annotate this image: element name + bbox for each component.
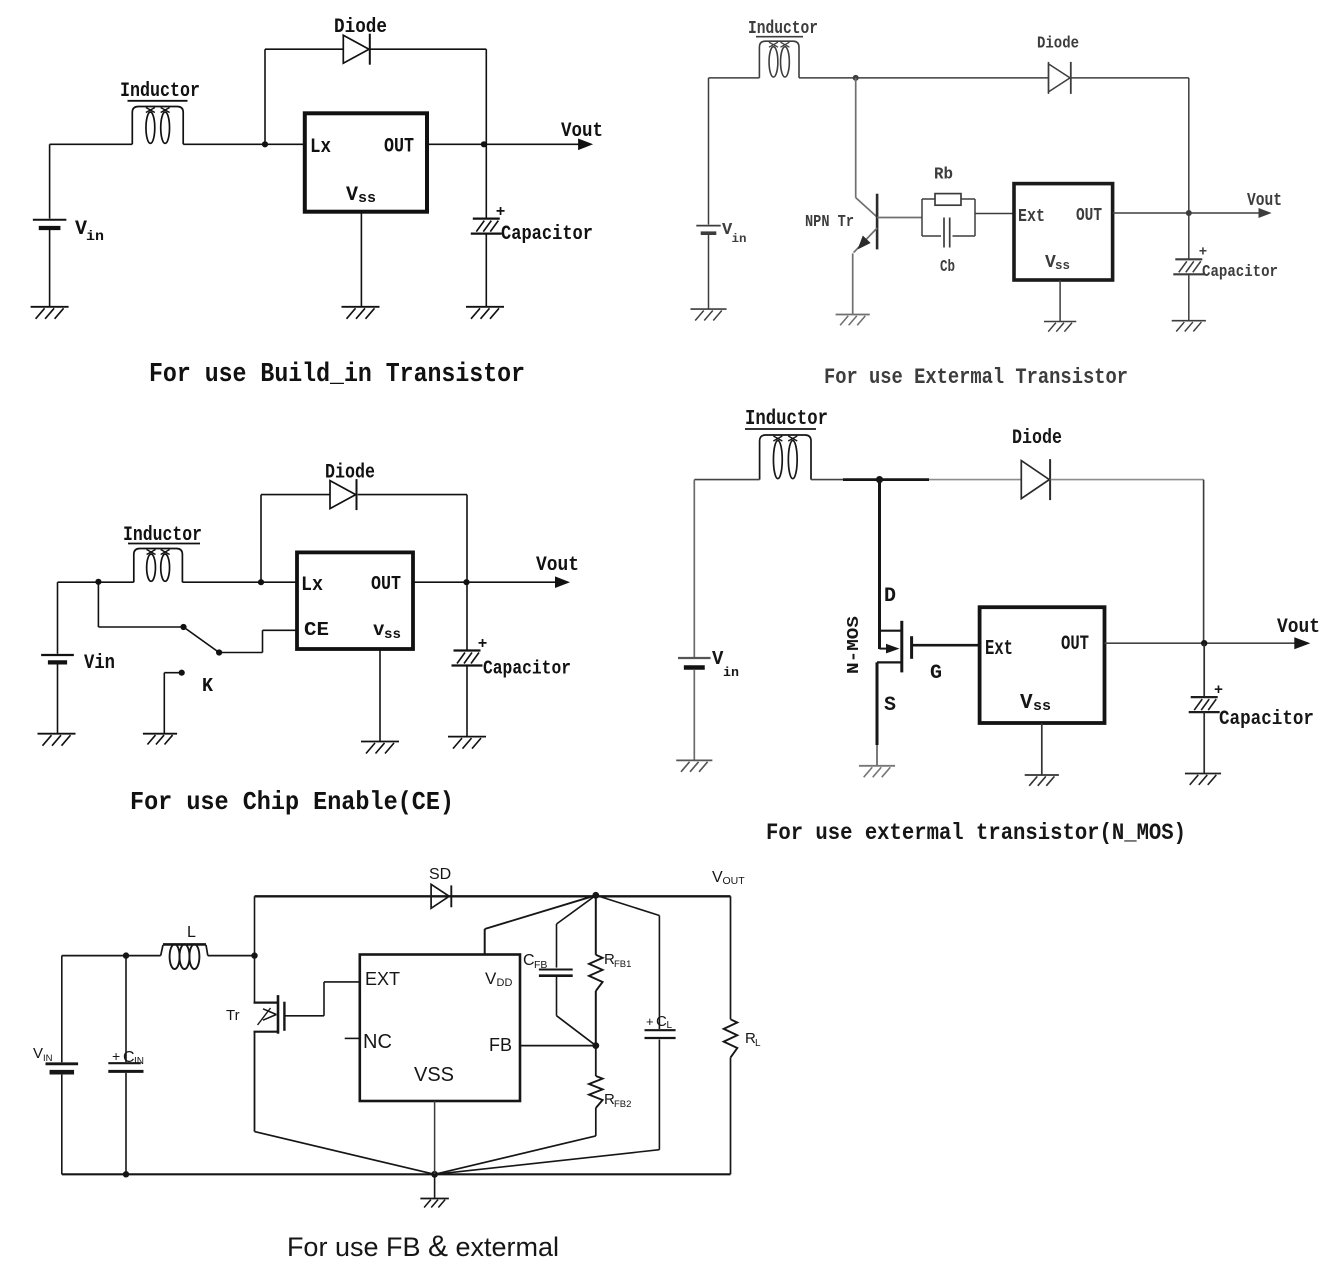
- node output junction (circuit 1): [481, 141, 487, 147]
- wire network to Ext pin: [975, 213, 1014, 215]
- pin stub NC: [345, 1037, 360, 1039]
- svg-text:OUT: OUT: [1076, 206, 1102, 226]
- wire gate to Ext (circuit 4): [912, 644, 980, 647]
- drain stub (Tr): [254, 1001, 279, 1003]
- wire RFB2 to ground node: [435, 1108, 596, 1174]
- resistor Rb: [922, 194, 975, 206]
- wire inductor to Lx (circuit 3): [182, 581, 297, 583]
- resistor RFB2: [589, 1076, 603, 1108]
- diode D3: [330, 479, 357, 510]
- wire diode to output corner (circuit 2): [1071, 78, 1189, 213]
- wire input top (circuit 2): [709, 77, 760, 79]
- svg-text:G: G: [930, 662, 942, 685]
- label Vout (circuit 3): [536, 554, 579, 577]
- node drain junction (circuit 4): [876, 476, 883, 483]
- IC U5 (FB & external): [360, 955, 520, 1102]
- label SD: [429, 866, 451, 883]
- pin label OUT (U4): [1061, 633, 1089, 656]
- label D: [884, 585, 896, 608]
- svg-text:V: V: [485, 969, 497, 988]
- inductor L1: [132, 107, 183, 145]
- svg-text:L: L: [755, 1038, 761, 1049]
- wire node to capacitor (circuit 3): [466, 582, 468, 650]
- ground Vin (circuit 2): [690, 309, 726, 320]
- label L (inductor): [187, 924, 196, 941]
- wire emitter to ground (NPN): [852, 253, 854, 314]
- battery VIN (circuit 5): [46, 956, 79, 1175]
- label Vin (circuit 2): [722, 221, 747, 246]
- transistor Q2 N-MOS channel bar: [900, 621, 903, 673]
- svg-text:ss: ss: [1033, 698, 1051, 715]
- label Capacitor (circuit 1): [501, 223, 593, 246]
- svg-text:Lx: Lx: [301, 574, 323, 597]
- plus sign (capacitor, circuit 2): [1199, 245, 1207, 261]
- transistor Q1 NPN base bar: [876, 194, 879, 250]
- node input junction (circuit 3): [95, 579, 101, 585]
- svg-text:Inductor: Inductor: [745, 408, 828, 431]
- node collector junction (circuit 2): [853, 75, 859, 81]
- IC U3 (chip enable): [297, 552, 413, 649]
- diode D2: [1049, 62, 1071, 94]
- pin label Ext (U2): [1018, 207, 1045, 227]
- capacitor C2 (output): [1173, 259, 1204, 274]
- switch K right contact: [216, 649, 222, 655]
- svg-text:EXT: EXT: [365, 969, 400, 989]
- diode SD: [431, 884, 451, 908]
- svg-text:Capacitor: Capacitor: [1202, 263, 1278, 282]
- svg-text:For use FB & extermal: For use FB & extermal: [287, 1230, 559, 1263]
- svg-text:FB2: FB2: [614, 1099, 631, 1110]
- wire capacitor to ground (circuit 1): [485, 234, 487, 307]
- svg-text:For use extermal transistor(N_: For use extermal transistor(N_MOS): [766, 820, 1186, 846]
- pin label FB (U5): [489, 1035, 512, 1055]
- wire FB node to RFB2: [595, 1046, 597, 1076]
- svg-text:C: C: [656, 1013, 667, 1030]
- wire capacitor to ground (circuit 4): [1203, 712, 1205, 773]
- label Vout (circuit 4): [1277, 616, 1320, 639]
- battery Vin (circuit 2): [696, 78, 720, 309]
- svg-text:ss: ss: [358, 190, 376, 207]
- wire base (NPN): [877, 217, 922, 219]
- contact K to ground: [164, 670, 184, 734]
- pin label Ext (U4): [985, 638, 1013, 661]
- pin label OUT (U1): [384, 136, 414, 159]
- wire left corner down (circuit 5): [254, 896, 256, 955]
- svg-text:Cb: Cb: [940, 258, 955, 277]
- ground Vin (circuit 1): [31, 307, 69, 319]
- inductor L5: [161, 944, 208, 969]
- svg-text:V: V: [33, 1045, 43, 1062]
- label Inductor (circuit 4): [745, 408, 828, 431]
- svg-text:V: V: [1020, 692, 1033, 715]
- pin label VDD (U5): [485, 969, 512, 989]
- node CIN bottom (circuit 5): [123, 1171, 129, 1177]
- transistor Tr channel bar: [277, 995, 280, 1034]
- wire ground stub (circuit 5): [434, 1174, 436, 1198]
- wire source diagonal to ground node: [255, 1132, 435, 1175]
- wire diode to corner (circuit 4): [1051, 480, 1204, 644]
- wire node to CL: [596, 895, 660, 1029]
- svg-text:Vout: Vout: [1277, 616, 1320, 639]
- pin label Vss (U3): [373, 619, 401, 643]
- svg-text:N-MOS: N-MOS: [845, 616, 864, 674]
- svg-text:Vout: Vout: [536, 554, 579, 577]
- svg-text:FB: FB: [489, 1035, 512, 1055]
- wire inductor to diode (circuit 2): [799, 77, 1049, 79]
- svg-text:Capacitor: Capacitor: [501, 223, 593, 246]
- IC U4 (N-MOS driver): [980, 607, 1105, 723]
- pin label Vss (U1): [346, 184, 376, 207]
- ground Vin (circuit 3): [38, 734, 76, 746]
- label RL: [745, 1030, 761, 1049]
- ground capacitor (circuit 4): [1185, 774, 1221, 785]
- title: For use Build_in Transistor: [149, 360, 525, 390]
- plus sign (capacitor, circuit 1): [496, 203, 506, 221]
- svg-text:V: V: [712, 869, 723, 886]
- svg-text:Capacitor: Capacitor: [1219, 708, 1314, 731]
- wire node to capacitor (circuit 1): [485, 144, 487, 218]
- svg-text:IN: IN: [43, 1053, 53, 1064]
- wire Vout corner to RL: [730, 896, 732, 1019]
- capacitor CIN: [108, 1063, 143, 1071]
- pin label OUT (U3): [371, 573, 401, 595]
- svg-text:VSS: VSS: [414, 1064, 454, 1086]
- svg-text:For use Chip Enable(CE): For use Chip Enable(CE): [130, 787, 454, 817]
- svg-text:L: L: [187, 924, 196, 941]
- wire RFB1 to FB node: [595, 991, 597, 1046]
- wire Vss to ground (circuit 1): [360, 212, 362, 307]
- svg-text:OUT: OUT: [384, 136, 414, 159]
- battery Vin (circuit 1): [33, 144, 67, 306]
- node output junction (circuit 2): [1186, 210, 1192, 216]
- svg-text:in: in: [732, 232, 747, 246]
- arrow Vout (circuit 1): [578, 139, 593, 151]
- pin label Lx (U1): [310, 136, 331, 159]
- wire switch to CE pin: [219, 630, 297, 652]
- svg-text:CE: CE: [304, 619, 329, 641]
- wire node to diode anode: [265, 49, 343, 143]
- svg-text:Inductor: Inductor: [120, 80, 200, 103]
- node output junction (circuit 4): [1201, 640, 1207, 646]
- pin label NC (U5): [363, 1031, 392, 1053]
- wire node thick segment (circuit 4): [843, 478, 929, 481]
- svg-text:+: +: [646, 1014, 654, 1029]
- wire diode to output corner (circuit 3): [358, 495, 467, 583]
- battery Vin (circuit 3): [41, 582, 74, 734]
- pin label CE (U3): [304, 619, 329, 641]
- title: For use Chip Enable(CE): [130, 787, 454, 817]
- label NPN Tr: [805, 213, 854, 232]
- transistor Q2 gate bar: [910, 636, 913, 659]
- wire bottom rail (circuit 5): [62, 1173, 731, 1175]
- label Rb: [934, 166, 953, 185]
- wire OUT to Vout (circuit 3): [413, 581, 557, 583]
- wire VDD to Vout node: [485, 895, 596, 954]
- arrow (Tr): [258, 1008, 277, 1025]
- switch K arm: [184, 627, 221, 654]
- title: For use Extermal Transistor: [824, 365, 1128, 390]
- wire input (circuit 3): [58, 581, 134, 583]
- label Diode (circuit 4): [1012, 427, 1062, 450]
- wire OUT to Vout (circuit 2): [1113, 212, 1261, 214]
- wire node to switch (circuit 3): [98, 582, 183, 627]
- ground Vin (circuit 4): [676, 760, 712, 771]
- label Capacitor (circuit 3): [483, 658, 571, 680]
- wire inductor to node (circuit 5): [208, 955, 255, 957]
- pin label VSS (U5): [414, 1064, 454, 1086]
- transistor Tr gate bar: [283, 1002, 285, 1031]
- label Capacitor (circuit 2): [1202, 263, 1278, 282]
- label N-MOS (rotated): [845, 616, 864, 674]
- label RFB2: [604, 1091, 631, 1110]
- svg-text:Ext: Ext: [985, 638, 1013, 661]
- arrow Vout (circuit 2): [1259, 208, 1272, 218]
- wire capacitor to ground (circuit 3): [466, 666, 468, 737]
- svg-text:Lx: Lx: [310, 136, 331, 159]
- label Diode (circuit 1): [334, 16, 387, 39]
- IC U2 (external transistor): [1014, 184, 1113, 280]
- title: For use extermal transistor(N_MOS): [766, 820, 1186, 846]
- emitter with arrow (NPN): [854, 228, 878, 253]
- svg-text:D: D: [884, 585, 896, 608]
- wire node to diode anode (circuit 3): [261, 495, 330, 581]
- svg-text:Ext: Ext: [1018, 207, 1045, 227]
- wire Vss to ground (circuit 3): [379, 649, 381, 742]
- ground Vss (circuit 4): [1025, 775, 1059, 786]
- label +CIN: [112, 1048, 144, 1067]
- wire node to diode (circuit 4): [929, 479, 1021, 481]
- svg-text:Vin: Vin: [84, 652, 115, 675]
- resistor RL: [724, 1019, 738, 1057]
- label Capacitor (circuit 4): [1219, 708, 1314, 731]
- wire node to capacitor (circuit 4): [1203, 643, 1205, 697]
- svg-text:Tr: Tr: [226, 1007, 240, 1024]
- label Tr: [226, 1007, 240, 1024]
- wire RL to bottom rail: [730, 1058, 732, 1175]
- wire CFB to FB node: [557, 977, 596, 1046]
- wire Rb-Cb right branch: [974, 199, 976, 236]
- node ground (circuit 5): [431, 1171, 438, 1178]
- svg-text:IN: IN: [134, 1056, 144, 1067]
- node CIN top (circuit 5): [123, 952, 129, 958]
- svg-text:ss: ss: [384, 627, 401, 643]
- svg-text:SD: SD: [429, 866, 451, 883]
- source stub (Q2): [877, 661, 902, 663]
- svg-text:in: in: [723, 665, 739, 680]
- body arrow (Q2): [880, 644, 900, 654]
- label Cb: [940, 258, 955, 277]
- label Diode (circuit 2): [1037, 35, 1079, 54]
- ground capacitor (circuit 3): [448, 737, 486, 749]
- ground symbol (circuit 5): [420, 1199, 449, 1208]
- label VOUT: [712, 869, 745, 887]
- svg-text:V: V: [346, 184, 358, 207]
- plus sign (capacitor, circuit 3): [478, 635, 488, 653]
- ground K (circuit 3): [143, 734, 177, 745]
- ground Vss (circuit 1): [342, 307, 380, 319]
- wire gate to EXT (circuit 5): [284, 982, 359, 1016]
- svg-text:OUT: OUT: [371, 573, 401, 595]
- wire diode to output corner: [371, 49, 487, 144]
- inductor L3: [134, 549, 183, 583]
- ground source (circuit 4): [859, 766, 895, 777]
- label K: [202, 675, 214, 697]
- plus sign (capacitor, circuit 4): [1214, 682, 1223, 699]
- svg-text:+: +: [1199, 245, 1207, 261]
- wire node to capacitor (circuit 2): [1188, 213, 1190, 259]
- wire node to RFB1: [595, 895, 597, 955]
- svg-text:Diode: Diode: [1037, 35, 1079, 54]
- svg-text:OUT: OUT: [723, 875, 746, 887]
- svg-text:Vout: Vout: [561, 120, 603, 143]
- label CFB: [523, 952, 547, 971]
- svg-text:FB1: FB1: [614, 959, 631, 970]
- pin label Vss (U4): [1020, 692, 1051, 715]
- wire Vss to ground (circuit 4): [1041, 723, 1043, 775]
- ground capacitor (circuit 1): [466, 307, 504, 319]
- drain stub (Q2): [878, 630, 902, 632]
- svg-text:NC: NC: [363, 1031, 392, 1053]
- svg-text:Diode: Diode: [1012, 427, 1062, 450]
- resistor RFB1: [589, 955, 603, 991]
- wire drain (Tr): [254, 956, 256, 1003]
- svg-text:Rb: Rb: [934, 166, 953, 185]
- wire source S to ground (circuit 4): [876, 662, 879, 765]
- wire OUT to Vout (circuit 4): [1105, 642, 1298, 644]
- label Vin (circuit 3): [84, 652, 115, 675]
- inductor L2: [759, 41, 799, 78]
- svg-text:NPN Tr: NPN Tr: [805, 213, 854, 232]
- wire Rb-Cb bottom left: [922, 235, 941, 237]
- wire Rb-Cb left branch: [921, 199, 923, 236]
- label Inductor (circuit 2): [748, 19, 818, 39]
- svg-text:S: S: [884, 694, 896, 717]
- wire FB pin (circuit 5): [520, 1045, 596, 1047]
- pin label Lx (U3): [301, 574, 323, 597]
- op-amp/IC U1 (built-in transistor): [305, 113, 427, 211]
- wire top rail (circuit 5): [255, 895, 731, 897]
- svg-text:ss: ss: [1055, 258, 1070, 273]
- svg-text:+: +: [112, 1048, 120, 1064]
- label Diode (circuit 3): [325, 462, 375, 485]
- wire node to CFB: [557, 895, 596, 967]
- svg-text:K: K: [202, 675, 214, 697]
- source stub (Tr): [254, 1031, 279, 1033]
- wire inductor to Lx pin: [183, 143, 305, 145]
- svg-text:For use Extermal Transistor: For use Extermal Transistor: [824, 365, 1128, 390]
- capacitor Cb: [944, 218, 950, 248]
- label Vout (circuit 2): [1247, 191, 1282, 211]
- capacitor C1 (output): [471, 219, 502, 234]
- label +CL: [646, 1013, 673, 1031]
- label Inductor (circuit 1): [120, 80, 200, 103]
- wire capacitor to ground (circuit 2): [1188, 274, 1190, 320]
- svg-text:Vout: Vout: [1247, 191, 1282, 211]
- node Lx (circuit 1): [262, 141, 268, 147]
- battery Vin (circuit 4): [678, 480, 711, 761]
- svg-text:OUT: OUT: [1061, 633, 1089, 656]
- svg-text:C: C: [523, 952, 535, 969]
- label S: [884, 694, 896, 717]
- ground capacitor (circuit 2): [1172, 321, 1206, 332]
- wire input (circuit 1): [50, 143, 133, 145]
- diode D1: [343, 34, 370, 65]
- wire Rb-Cb bottom right: [953, 235, 976, 237]
- wire drain D (circuit 4): [878, 480, 881, 649]
- inductor L4: [760, 435, 811, 480]
- title: For use FB & extermal: [287, 1230, 559, 1263]
- capacitor CFB: [539, 970, 573, 976]
- switch K left contact: [180, 624, 186, 630]
- arrow Vout (circuit 4): [1294, 637, 1310, 649]
- svg-text:in: in: [86, 229, 104, 245]
- capacitor CL: [645, 1030, 676, 1038]
- svg-text:Capacitor: Capacitor: [483, 658, 571, 680]
- pin label EXT (U5): [365, 969, 400, 989]
- wire input rail (circuit 5): [62, 955, 161, 957]
- wire VSS to ground node: [434, 1101, 436, 1174]
- label G: [930, 662, 942, 685]
- wire CIN top (circuit 5): [125, 956, 127, 1062]
- pin label OUT (U2): [1076, 206, 1102, 226]
- label Vin (circuit 4): [712, 648, 739, 680]
- node VOUT (circuit 5): [592, 892, 599, 899]
- node drain junction (circuit 5): [251, 952, 257, 958]
- arrow Vout (circuit 3): [555, 576, 570, 588]
- ground emitter (circuit 2): [836, 315, 870, 326]
- svg-text:For use Build_in Transistor: For use Build_in Transistor: [149, 360, 525, 390]
- svg-text:DD: DD: [497, 977, 513, 989]
- wire Vss to ground (circuit 2): [1059, 280, 1061, 322]
- wire OUT to Vout (circuit 1): [427, 143, 581, 145]
- ground Vss (circuit 2): [1044, 322, 1076, 332]
- wire CL to ground node: [435, 1040, 660, 1175]
- label VIN: [33, 1045, 53, 1064]
- node FB (circuit 5): [592, 1042, 599, 1049]
- capacitor C4 (output): [1189, 697, 1220, 712]
- wire source down (Tr): [254, 1032, 256, 1132]
- label Vout (circuit 1): [561, 120, 603, 143]
- label Vin (circuit 1): [75, 218, 104, 245]
- label RFB1: [604, 951, 631, 970]
- wire inductor to node (circuit 4): [811, 479, 843, 481]
- capacitor C3 (output): [452, 651, 483, 666]
- wire input top (circuit 4): [694, 479, 759, 481]
- diode D4: [1021, 459, 1050, 500]
- pin label Vss (U2): [1045, 253, 1070, 273]
- label Inductor (circuit 3): [123, 524, 202, 547]
- wire CIN bottom (circuit 5): [125, 1073, 127, 1174]
- wire collector (NPN): [856, 78, 877, 217]
- ground Vss (circuit 3): [361, 742, 399, 754]
- node output junction (circuit 3): [463, 579, 469, 585]
- node diode junction (circuit 3): [258, 579, 264, 585]
- svg-text:Diode: Diode: [334, 16, 387, 39]
